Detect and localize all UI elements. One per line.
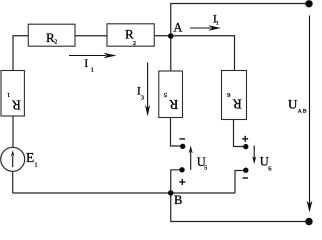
svg-text:R: R <box>169 97 178 112</box>
svg-text:5: 5 <box>164 91 167 98</box>
svg-text:U: U <box>288 96 298 111</box>
svg-text:3: 3 <box>141 96 144 102</box>
svg-text:E: E <box>26 150 34 165</box>
svg-text:1: 1 <box>216 21 219 27</box>
svg-text:1: 1 <box>34 162 37 169</box>
svg-text:1: 1 <box>91 66 94 73</box>
svg-text:R: R <box>125 26 134 41</box>
svg-text:R: R <box>233 97 242 112</box>
svg-text:1: 1 <box>7 91 10 98</box>
svg-text:I: I <box>84 56 88 70</box>
svg-text:2: 2 <box>54 40 57 46</box>
svg-text:A: A <box>173 21 182 35</box>
svg-text:B: B <box>174 193 182 207</box>
svg-text:R: R <box>12 97 21 112</box>
svg-text:AB: AB <box>298 108 307 114</box>
svg-text:5: 5 <box>204 166 207 172</box>
svg-text:2: 2 <box>133 41 136 47</box>
